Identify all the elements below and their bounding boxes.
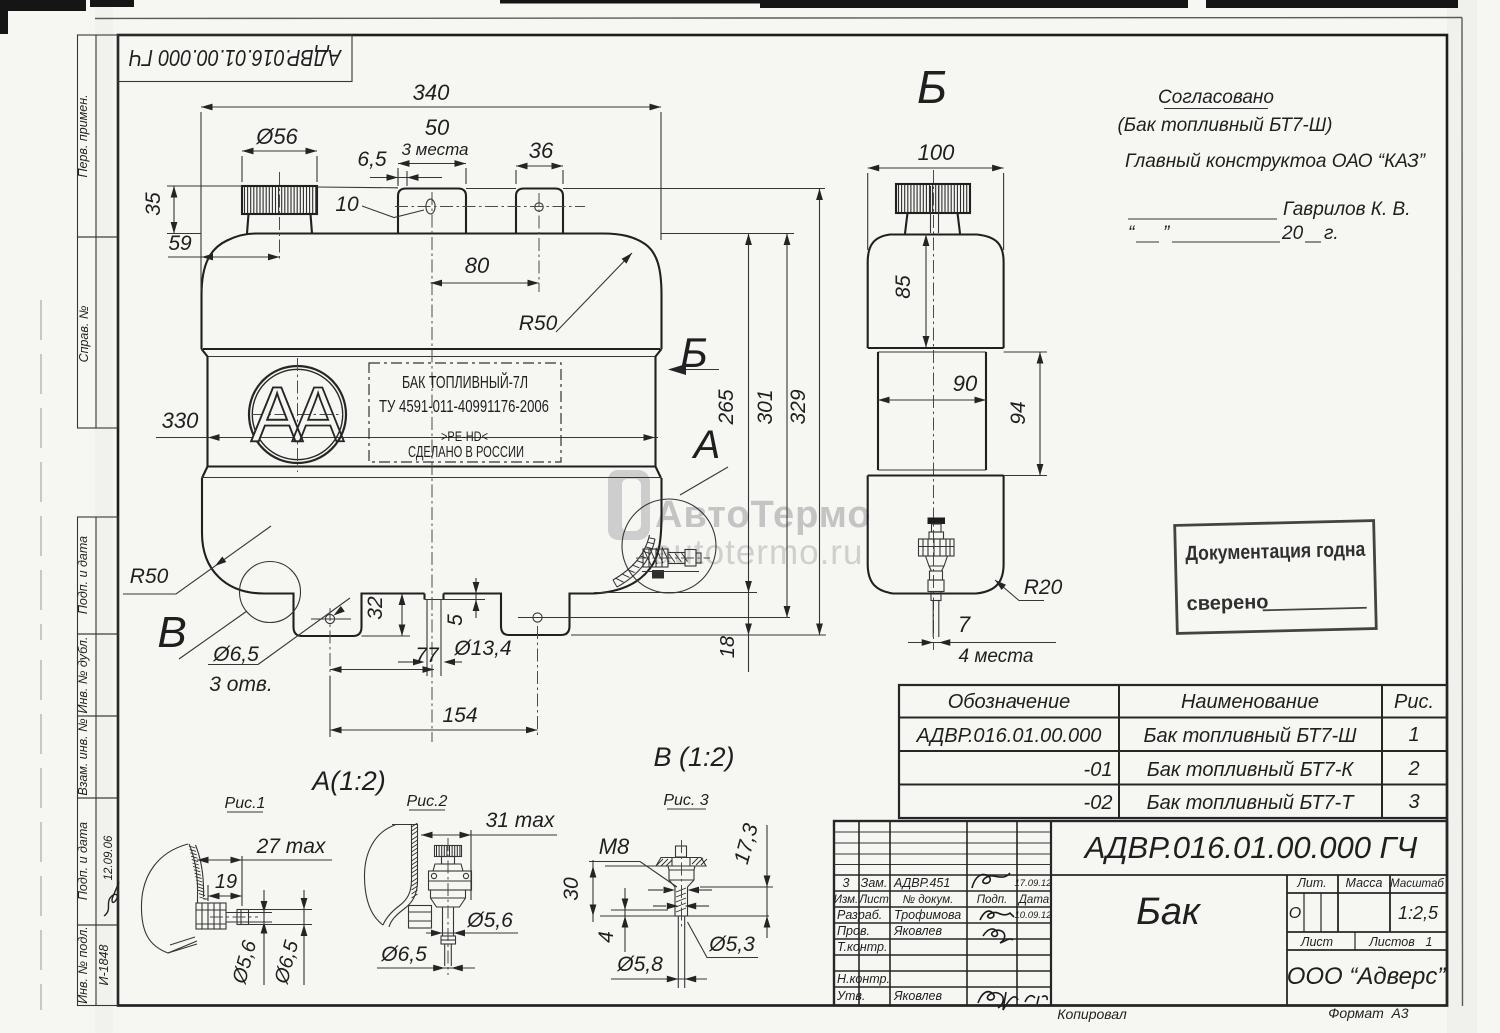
Ris.3 dim phi5,8 xyxy=(611,953,707,982)
svg-text:Разраб.: Разраб. xyxy=(837,908,882,922)
svg-text:Перв. примен.: Перв. примен. xyxy=(76,94,90,177)
Ris.2 valve assembly xyxy=(409,838,472,975)
svg-text:Масштаб: Масштаб xyxy=(1390,878,1444,890)
svg-text:Листов: Листов xyxy=(1368,935,1415,949)
title block outer xyxy=(834,821,1447,1006)
thin top connecting lines xyxy=(167,186,825,234)
left margin box Sprav No xyxy=(77,237,118,428)
dim 7 / 4 mesta xyxy=(908,612,1056,667)
svg-text:АДВР.016.01.00.000 ГЧ: АДВР.016.01.00.000 ГЧ xyxy=(129,45,343,71)
Ris.3 phi5,3 leader xyxy=(688,922,759,958)
svg-text:Утв.: Утв. xyxy=(836,989,865,1003)
left margin box Vzam inv xyxy=(76,716,118,798)
Ris.1 dim 19 xyxy=(208,871,242,901)
svg-text:Лист: Лист xyxy=(858,894,889,906)
svg-text:2: 2 xyxy=(1407,758,1419,780)
foot hole left xyxy=(311,614,351,623)
svg-text:ООО “Адверс”: ООО “Адверс” xyxy=(1287,963,1447,990)
dim 265 and 18 xyxy=(715,234,752,673)
svg-text:Подп.: Подп. xyxy=(977,894,1008,906)
tank vertical centerline xyxy=(431,192,433,742)
svg-text:А: А xyxy=(692,423,721,467)
R20 leader xyxy=(993,576,1063,601)
svg-text:Зам.: Зам. xyxy=(861,876,888,890)
svg-text:№ докум.: № докум. xyxy=(903,894,954,906)
dim 77 xyxy=(330,608,440,676)
svg-text:Бак топливный БТ7-Т: Бак топливный БТ7-Т xyxy=(1147,792,1356,814)
dim 35 xyxy=(142,186,177,234)
detail circle V xyxy=(157,562,300,660)
svg-text:Ø5,3: Ø5,3 xyxy=(708,933,755,956)
svg-text:10: 10 xyxy=(335,193,359,216)
svg-text:Инв. № дубл.: Инв. № дубл. xyxy=(76,637,90,714)
dim 329 xyxy=(787,189,823,636)
dim 36 xyxy=(516,138,563,184)
side body lower section R20 corners xyxy=(868,476,1004,594)
Ris.3 pickup bolt part xyxy=(656,840,707,988)
corner A drain elbow fitting xyxy=(636,547,710,579)
Ris.1 dome wall section xyxy=(141,844,226,953)
svg-text:БАК ТОПЛИВНЫЙ-7Л: БАК ТОПЛИВНЫЙ-7Л xyxy=(402,371,528,392)
svg-text:3 места: 3 места xyxy=(401,140,468,159)
Ris.2 dim phi5,6 xyxy=(426,909,518,936)
dim 90 xyxy=(878,371,986,403)
dim 154 xyxy=(330,626,538,737)
top-left inverted designation box xyxy=(118,35,352,82)
svg-text:R50: R50 xyxy=(519,312,558,335)
svg-text:265: 265 xyxy=(715,389,738,425)
svg-text:17.09.12: 17.09.12 xyxy=(1015,878,1053,889)
dim 80 xyxy=(431,253,540,286)
svg-text:Рис.: Рис. xyxy=(1394,691,1434,713)
svg-text:100: 100 xyxy=(918,140,955,165)
svg-text:18: 18 xyxy=(717,636,739,658)
title block left texts xyxy=(834,876,1052,1003)
svg-text:Ø6,5: Ø6,5 xyxy=(212,643,259,666)
left margin box Podp i data 1 xyxy=(76,517,118,634)
Ris.3 dim 30 xyxy=(560,860,656,922)
svg-text:340: 340 xyxy=(413,80,450,105)
title block right grid xyxy=(1051,875,1447,1006)
svg-text:35: 35 xyxy=(142,192,165,216)
svg-text:(Бак топливный БТ7-Ш): (Бак топливный БТ7-Ш) xyxy=(1117,115,1332,136)
label 10 leader xyxy=(335,193,424,218)
dim 301 xyxy=(754,234,790,618)
svg-text:Рис.2: Рис.2 xyxy=(407,793,448,810)
logo AA emblem xyxy=(249,358,346,472)
svg-text:1: 1 xyxy=(1426,935,1433,949)
Ris.3 shank arrows xyxy=(648,887,712,910)
cap centerline xyxy=(279,172,281,262)
dim 32 xyxy=(362,594,411,637)
Ris.2 caption xyxy=(407,793,448,810)
svg-text:1: 1 xyxy=(1408,724,1419,746)
tab2 centerline xyxy=(538,193,540,292)
Ris.2 dim phi6,5 xyxy=(377,943,475,971)
corner A fitting wall hatched xyxy=(613,535,655,587)
svg-text:3: 3 xyxy=(1408,791,1419,813)
svg-text:Яковлев: Яковлев xyxy=(893,924,942,938)
documentation stamp xyxy=(1175,521,1377,634)
Ris.3 M8 label xyxy=(589,834,677,887)
svg-text:Подп. и дата: Подп. и дата xyxy=(76,822,90,900)
dim 5 xyxy=(444,578,486,626)
top scan artifact strip xyxy=(0,0,1458,34)
svg-text:154: 154 xyxy=(442,704,477,727)
svg-text:АДВР.016.01.00.000 ГЧ: АДВР.016.01.00.000 ГЧ xyxy=(1083,830,1418,865)
svg-text:80: 80 xyxy=(465,253,490,278)
detail circle A xyxy=(622,423,728,593)
dim phi56 xyxy=(242,124,317,182)
dim 6,5 xyxy=(357,148,442,186)
svg-text:Ø5,8: Ø5,8 xyxy=(616,953,663,976)
svg-text:Инв. № подл.: Инв. № подл. xyxy=(76,926,90,1004)
top tab 2 xyxy=(516,189,563,234)
watermark autotermo logo xyxy=(608,470,872,572)
svg-text:10.09.12: 10.09.12 xyxy=(1015,910,1053,921)
Ris.2 dome wall xyxy=(364,823,418,927)
title block lit massa masshtab xyxy=(1289,876,1445,949)
svg-text:330: 330 xyxy=(162,408,199,433)
svg-text:Б: Б xyxy=(917,61,947,113)
svg-text:Подп. и дата: Подп. и дата xyxy=(76,536,90,614)
dim 94 xyxy=(1004,352,1047,476)
svg-text:Яковлев: Яковлев xyxy=(893,989,942,1003)
svg-text:Взам. инв. №: Взам. инв. № xyxy=(76,718,90,796)
svg-text:О: О xyxy=(1289,905,1301,922)
moulded marking dashed box xyxy=(369,363,561,462)
svg-text:Бак топливный БТ7-Ш: Бак топливный БТ7-Ш xyxy=(1143,725,1357,747)
svg-text:329: 329 xyxy=(787,389,810,424)
Ris.1 tube and cap xyxy=(210,910,258,925)
svg-text:Ø6,5: Ø6,5 xyxy=(380,943,427,966)
svg-text:301: 301 xyxy=(754,389,777,424)
svg-text:ТУ 4591-011-40991176-2006: ТУ 4591-011-40991176-2006 xyxy=(379,396,549,416)
svg-text:А: А xyxy=(251,370,303,458)
svg-text:94: 94 xyxy=(1007,401,1030,424)
dim 85 xyxy=(892,234,929,348)
R50 top right xyxy=(519,251,635,335)
svg-text:4 места: 4 места xyxy=(959,646,1034,667)
title block left grid xyxy=(834,821,1051,1006)
svg-text:4: 4 xyxy=(595,931,618,943)
side body step lines xyxy=(868,348,1004,476)
svg-text:Документация годна: Документация годна xyxy=(1185,538,1366,565)
sheet edge thin lines xyxy=(95,18,1462,19)
tank band groove xyxy=(202,349,662,478)
svg-text:R50: R50 xyxy=(130,565,169,588)
Ris.3 dim 17,3 xyxy=(700,821,773,938)
svg-text:Ø5,6: Ø5,6 xyxy=(466,909,513,932)
svg-text:Дата: Дата xyxy=(1017,894,1049,906)
Ris.2 dim 31max xyxy=(421,809,557,900)
svg-text:АвтоТермо: АвтоТермо xyxy=(655,494,872,536)
svg-text:сверено: сверено xyxy=(1186,591,1268,615)
svg-text:Справ. №: Справ. № xyxy=(77,305,91,362)
dim 100 xyxy=(868,140,1004,250)
svg-text:Лит.: Лит. xyxy=(1296,876,1326,890)
side cap ribbed xyxy=(896,184,970,234)
svg-text:Бак: Бак xyxy=(1136,891,1202,933)
svg-text:Согласовано: Согласовано xyxy=(1158,87,1274,108)
dim 330 xyxy=(156,408,658,441)
svg-text:7: 7 xyxy=(958,612,971,637)
dim 59 xyxy=(168,232,280,260)
svg-text:Наименование: Наименование xyxy=(1181,691,1319,713)
svg-text:Рис.1: Рис.1 xyxy=(225,795,266,812)
svg-text:30: 30 xyxy=(560,877,583,901)
left margin box Podp i data 2 with signature xyxy=(76,798,119,925)
dim 340 xyxy=(201,80,661,290)
svg-text:12.09.06: 12.09.06 xyxy=(103,835,115,880)
svg-text:R20: R20 xyxy=(1024,576,1063,599)
bottom center drain stub xyxy=(425,594,444,677)
tank top outline xyxy=(202,234,662,350)
svg-text:Обозначение: Обозначение xyxy=(948,691,1071,713)
Ris.3 caption xyxy=(663,792,708,809)
svg-text:3 отв.: 3 отв. xyxy=(209,673,272,696)
svg-text:Ø13,4: Ø13,4 xyxy=(453,637,511,660)
svg-text:Изм.: Изм. xyxy=(834,894,859,906)
svg-text:Копировал: Копировал xyxy=(1057,1006,1127,1022)
svg-text:Гаврилов К. В.: Гаврилов К. В. xyxy=(1283,199,1411,220)
svg-text:Главный конструктоа ОАО “КАЗ”: Главный конструктоа ОАО “КАЗ” xyxy=(1125,151,1427,172)
svg-text:АДВР.451: АДВР.451 xyxy=(893,876,950,890)
left margin box Perv.primen. xyxy=(76,35,118,237)
svg-text:Рис. 3: Рис. 3 xyxy=(663,792,708,809)
svg-text:В (1:2): В (1:2) xyxy=(653,742,734,772)
phi6,5 3 otv label xyxy=(208,598,350,696)
svg-text:Формат: Формат xyxy=(1328,1005,1384,1021)
parts table xyxy=(899,685,1447,818)
svg-text:И-1848: И-1848 xyxy=(97,945,111,986)
svg-text:>PE-HD<: >PE-HD< xyxy=(441,428,488,444)
svg-text:85: 85 xyxy=(892,275,915,299)
svg-text:36: 36 xyxy=(529,138,554,163)
svg-text:31 max: 31 max xyxy=(486,809,556,832)
top tab 1 xyxy=(398,189,466,234)
right side extension lines xyxy=(552,593,826,636)
foot hole middle xyxy=(518,613,790,622)
svg-text:1:2,5: 1:2,5 xyxy=(1398,903,1439,923)
svg-text:3: 3 xyxy=(843,876,850,890)
tank lower body and bottom with feet xyxy=(202,478,662,636)
svg-text:27 max: 27 max xyxy=(256,835,327,858)
svg-text:Трофимова: Трофимова xyxy=(894,908,961,922)
svg-text:В: В xyxy=(157,608,186,657)
svg-text:А(1:2): А(1:2) xyxy=(310,766,386,796)
left margin box Inv No dubl xyxy=(76,634,118,716)
Ris.1 dim phi6,5 xyxy=(249,890,313,987)
svg-text:Пров.: Пров. xyxy=(837,924,870,938)
side centerline xyxy=(933,170,935,650)
Ris.1 caption xyxy=(225,795,266,812)
svg-text:59: 59 xyxy=(168,232,192,255)
title block left revision rows xyxy=(834,832,1051,865)
svg-text:19: 19 xyxy=(215,871,237,893)
Ris.1 fitting block xyxy=(196,903,226,929)
left margin box Inv No podl xyxy=(76,925,118,1006)
R50 bottom left xyxy=(123,526,271,594)
dim phi13,4 xyxy=(398,637,512,665)
svg-text:г.: г. xyxy=(1324,223,1339,244)
svg-text:Бак топливный БТ7-К: Бак топливный БТ7-К xyxy=(1147,759,1355,781)
svg-text:АДВР.016.01.00.000: АДВР.016.01.00.000 xyxy=(916,725,1102,747)
svg-text:Ø56: Ø56 xyxy=(255,124,298,149)
title block signatures xyxy=(972,873,1047,1010)
side body middle section xyxy=(878,352,986,470)
svg-text:Т.контр.: Т.контр. xyxy=(837,940,887,954)
side drain fitting assembly xyxy=(919,518,955,638)
tabs horizontal centerline xyxy=(395,206,585,208)
svg-text:32: 32 xyxy=(364,596,387,620)
svg-text:20: 20 xyxy=(1281,223,1304,244)
svg-text:СДЕЛАНО В РОССИИ: СДЕЛАНО В РОССИИ xyxy=(408,444,524,461)
svg-text:90: 90 xyxy=(953,371,978,396)
svg-text:-02: -02 xyxy=(1084,792,1113,814)
svg-text:Н.контр.: Н.контр. xyxy=(837,972,890,986)
svg-text:M8: M8 xyxy=(599,834,630,859)
svg-text:-01: -01 xyxy=(1084,759,1113,781)
svg-text:Масса: Масса xyxy=(1346,876,1383,890)
svg-text:50: 50 xyxy=(425,115,450,140)
svg-text:77: 77 xyxy=(415,644,440,667)
svg-text:Лист: Лист xyxy=(1300,935,1333,949)
section label B with arrow xyxy=(668,329,719,376)
Ris.3 dim 4 xyxy=(595,888,769,952)
side body upper section xyxy=(868,235,1004,349)
svg-text:5: 5 xyxy=(444,614,467,626)
Ris.1 dim phi5,6 xyxy=(228,890,272,987)
Ris.1 dim 27max xyxy=(197,835,332,906)
svg-text:6,5: 6,5 xyxy=(357,148,387,171)
svg-text:А3: А3 xyxy=(1390,1005,1408,1021)
dim 50 3 mesta xyxy=(398,115,469,184)
threaded filler cap front xyxy=(242,186,317,234)
soglasovano block xyxy=(1117,87,1426,244)
